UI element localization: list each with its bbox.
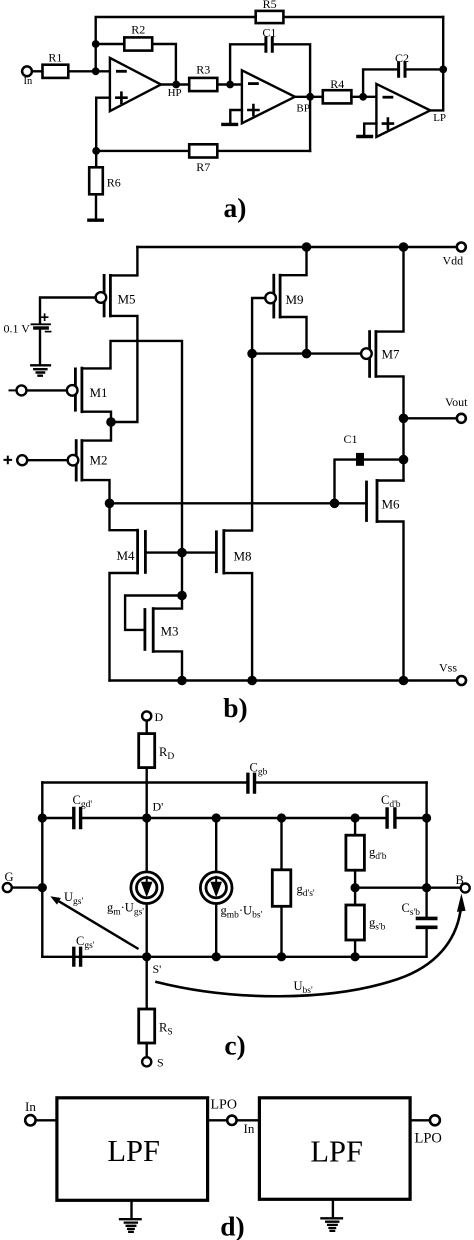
ground battery [31,365,50,375]
ground LPF2 [321,1218,342,1231]
svg-text:M9: M9 [286,292,304,307]
resistor R4 [323,90,352,103]
node mirror gates [177,548,187,558]
svg-text:M8: M8 [234,549,252,564]
svg-text:LPF: LPF [310,1135,363,1169]
wire M4 gate [145,551,182,553]
wire RS to S [145,1043,147,1057]
wire Vout node down to M6 drain [402,418,404,480]
terminal G [3,883,12,892]
node U2 inverting input [226,81,234,89]
terminal Vss [457,676,466,685]
svg-text:LPO: LPO [211,1098,237,1113]
op-amp U3 [376,84,430,137]
svg-text:M5: M5 [118,292,136,307]
battery 0.1 V [32,323,51,325]
wire Vout node to terminal [404,417,457,419]
svg-text:M1: M1 [90,385,108,400]
node middle right [422,883,431,892]
node C1 right [399,455,409,465]
wire G terminal to rail [12,886,43,888]
node M3 drain-gate [177,591,187,601]
node HP [172,81,180,89]
svg-text:In: In [244,1121,255,1136]
node M6 gate tap [330,499,340,509]
wire gate line to M7 [252,352,361,354]
resistor R3 [189,78,217,91]
node gd'b top [351,813,360,822]
wire LPF2 to LPO terminal [410,1119,430,1121]
terminal Vout [457,414,466,423]
svg-text:M4: M4 [117,548,136,563]
wire Vdd rail [137,246,456,248]
wire M9 gate down to gate line [252,298,265,354]
node gate line left [247,349,257,359]
svg-text:S: S [157,1056,164,1070]
svg-text:R5: R5 [263,0,277,11]
wire LPF1 to ground [130,1200,132,1218]
wire to R2 [96,43,125,45]
terminal non-inverting input [17,455,27,465]
wire C1 [335,460,404,504]
terminal LPO right [430,1115,440,1125]
svg-text:R1: R1 [48,50,62,64]
svg-text:In: In [25,1099,36,1114]
terminal inverting input [17,385,27,395]
wire first-stage output line [110,502,335,504]
wire M4 drain up [110,503,138,530]
node gmb top [212,813,221,822]
resistor R2 [124,37,152,50]
transistor M1 (PMOS) [74,369,77,410]
wire D to RD [145,721,147,734]
wire input to M1 gate [27,389,67,391]
svg-text:a): a) [224,192,247,223]
arrow Ugs' [59,901,138,948]
svg-text:C1: C1 [344,432,358,446]
wire M3 drain up [153,596,182,609]
wire M2 drain down to first-stage output [82,480,110,503]
wire M3 source to Vss rail [153,651,182,680]
wire top feedback from U1 input node up to R5 line [96,17,444,71]
capacitor Cs'b [418,918,436,927]
resistor gs'b [346,905,365,940]
node U3 inverting input [359,93,367,101]
transistor M2 (PMOS) [75,441,78,481]
node S' [142,952,151,961]
wire M5 source to Vdd [110,247,137,275]
wire R2 to HP node [152,44,176,85]
svg-text:LPO: LPO [415,1131,442,1147]
node first-stage left [105,499,115,509]
svg-text:R6: R6 [107,175,121,189]
ground U3 [358,135,372,138]
svg-text:R4: R4 [330,77,344,91]
block LPF2 [259,1098,410,1200]
resistor R6 [89,167,103,194]
terminal D [142,711,151,720]
transistor M3 (NMOS diode-connected) [143,610,146,650]
terminal LPO mid [227,1116,236,1125]
op-amp U1 [110,58,161,111]
transistor M5 (PMOS) [103,275,106,316]
wire R3 to op-amp U2 inverting input [217,83,242,85]
wire right B vertical rail [42,783,426,957]
transistor M7 (PMOS) [368,332,371,377]
wire R1 to op-amp U1 inverting input [68,70,110,72]
node M9 at Vdd rail [302,242,312,252]
capacitor C1 [266,38,272,52]
svg-text:R2: R2 [131,23,145,37]
node D' [142,813,151,822]
wire U2 non-inverting input to ground [230,110,242,123]
svg-text:M3: M3 [161,624,179,639]
node bottom rail junction [92,147,100,155]
wire M6 drain up [377,479,404,481]
arrow Ubs' curved to B [157,912,461,996]
wire M8 source to Vss rail [224,573,252,680]
wire M8 gate [182,551,216,553]
resistor gds' [272,870,291,907]
wire LPF1 to LPO node [208,1119,228,1121]
resistor RS [139,1009,155,1043]
op-amp U2 [242,70,295,123]
wire G vertical rail [41,783,43,957]
svg-text:M7: M7 [382,347,401,362]
block LPF1 [57,1098,208,1201]
input terminal In [22,66,32,76]
wire M2 source up to tail node [82,422,111,441]
wire LP output up to top line [430,17,443,110]
capacitor C2 [399,63,405,77]
resistor gd'b [346,835,365,870]
resistor R1 [43,65,69,78]
svg-text:G: G [5,870,14,884]
ground LPF1 [120,1219,141,1232]
ground below R6 [89,218,102,221]
wire U1 non-inverting input down to bottom rail [96,98,110,151]
node C2 right junction [439,66,447,74]
terminal B [461,884,470,893]
svg-text:BP: BP [296,102,309,114]
wire gmb source branch [215,818,217,957]
terminal In [25,1115,35,1125]
wire node to R6 [95,151,97,167]
svg-text:M2: M2 [90,453,108,468]
svg-text:LP: LP [433,112,446,124]
node G rail at Cgd' line [38,813,47,822]
svg-text:S': S' [153,962,162,976]
wire M9 drain down [280,317,306,354]
node at U1 inverting input [92,67,100,75]
wire M4 source down to Vss rail [110,573,138,681]
wire LPF2 to ground [332,1199,334,1217]
resistor RD [139,734,155,768]
wire C2 feedback loop [363,69,443,96]
node main rail right [422,813,431,822]
wire M1 drain over the top to mirror [82,341,182,553]
transistor M4 (NMOS mirrored) [144,532,147,573]
wire node to LPF2 [237,1119,260,1121]
wire In to LPF1 [36,1119,57,1121]
node M3 source at Vss [177,676,187,686]
wire input to M2 gate [27,459,67,461]
node tail (M1 M2 M5) [106,417,116,427]
node gs'b bottom [351,952,360,961]
svg-text:b): b) [223,692,247,723]
wire M5 gate to battery [40,298,96,323]
svg-text:R3: R3 [196,63,210,77]
wire RD to D' node [145,768,147,818]
wire M7 source to Vdd [376,247,404,332]
wire main D' rail [42,817,426,819]
wire gd'b branch [354,818,356,957]
wire gds' branch [280,818,282,957]
svg-text:D': D' [153,800,164,814]
resistor R7 [189,144,217,157]
terminal Vdd [457,243,466,252]
svg-text:C1: C1 [262,26,276,40]
svg-text:B: B [456,873,464,887]
node M6 source at Vss [399,676,409,686]
node BP [306,93,314,101]
wire mirror node down to M3 [181,553,183,596]
capacitor Cgb [248,774,255,792]
current source gm·Ugs' [131,872,163,904]
wire Cgb line [42,781,426,783]
svg-text:R7: R7 [196,160,210,174]
node M7 at Vdd rail [399,242,409,252]
node Vout [399,414,409,424]
wire M9 source to Vdd [280,247,306,275]
node M8 source at Vss [247,676,257,686]
svg-text:0.1 V: 0.1 V [4,322,31,336]
ground U2 [223,123,237,126]
svg-text:c): c) [224,1030,245,1061]
capacitor Cd'b [387,809,395,827]
wire S' to RS [145,957,147,1009]
wire R6 to ground [95,194,97,219]
wire M3 gate loop [125,596,182,630]
wire U1 output to R3 [161,83,189,85]
node gds' bottom [277,952,286,961]
transistor M6 (NMOS) [365,482,368,521]
svg-text:Vdd: Vdd [443,254,464,268]
svg-text:LPF: LPF [107,1134,160,1168]
wire middle line to B [355,887,461,889]
svg-text:d): d) [220,1211,244,1240]
wire In to R1 [32,70,43,72]
resistor R5 [256,11,284,23]
wire M5 drain down to tail node [110,316,137,422]
capacitor Cgd' [74,809,81,828]
wire M8 drain up to M9/M7 gate line [224,354,252,531]
node R2 tap [92,40,100,48]
node gds' top [277,813,286,822]
wire Vss rail [110,679,457,681]
wire bottom rail to R7 [96,150,310,152]
svg-text:HP: HP [168,87,182,99]
svg-text:Vss: Vss [439,661,457,675]
wire M6 source to Vss rail [377,522,404,681]
node G [38,883,47,892]
wire M7 drain down to Vout node [376,376,404,418]
svg-text:Vout: Vout [445,395,468,409]
wire battery to ground [39,330,41,364]
wire M1 source to tail node [82,412,111,422]
wire C1 feedback loop [230,44,310,151]
svg-text:C2: C2 [395,51,409,65]
wire R4 to op-amp U3 inverting input [351,96,376,98]
wire gm source branch [145,818,147,957]
node gmb bottom [212,952,221,961]
transistor M8 (NMOS) [215,532,218,572]
current source gmb·Ubs' [200,872,232,904]
node M9 drain on gate line [302,349,312,359]
wire U3 non-inverting input to ground [364,124,376,136]
capacitor Cgs' [74,948,81,965]
capacitor C1 [356,453,364,466]
transistor M9 (PMOS) [272,275,275,317]
svg-text:D: D [155,710,164,724]
terminal S [142,1057,151,1066]
wire M6 gate [335,502,367,504]
node between gd'b and gs'b [351,883,360,892]
svg-text:M6: M6 [382,497,401,512]
svg-text:In: In [24,76,33,87]
wire U2 output to R4 [295,96,323,98]
